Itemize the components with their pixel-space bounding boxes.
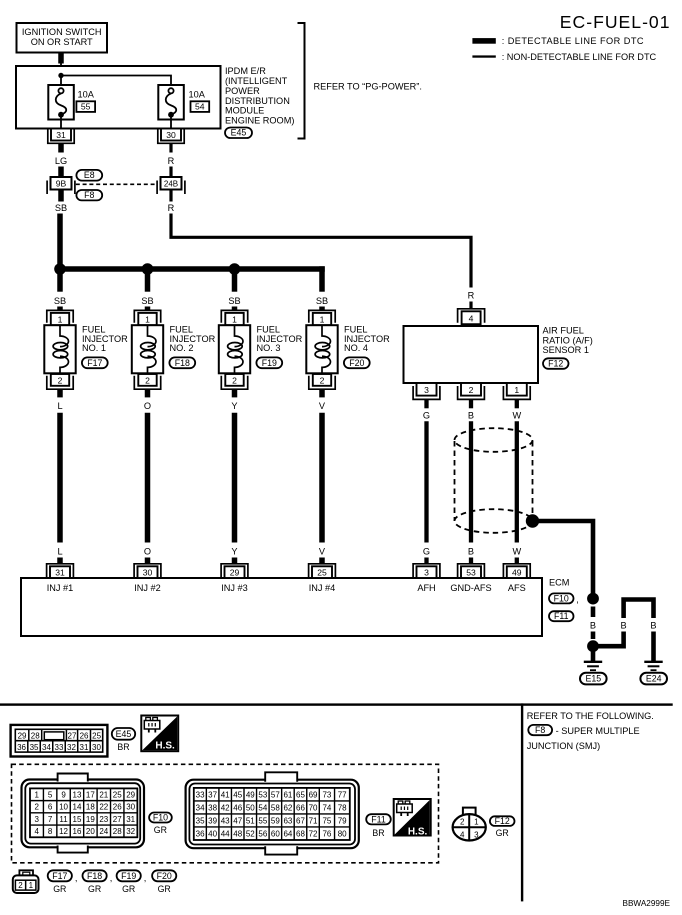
harness side marker H.S. (E45) (141, 716, 178, 752)
svg-text:25: 25 (317, 568, 327, 578)
fuse number box 55 (76, 101, 95, 112)
wire color SB (55, 203, 67, 213)
wire SB stub to injector 1 (57, 307, 63, 311)
svg-text:73: 73 (322, 790, 331, 799)
wire color B (ground run) (590, 621, 596, 631)
wire injector 1 down stub (57, 389, 63, 397)
wire SB stub to injector 3 (232, 307, 238, 311)
svg-text:38: 38 (208, 803, 217, 812)
wire 24B down (thin stub) (169, 190, 172, 202)
connector ref F8 oval (76, 190, 102, 200)
svg-text:V: V (319, 547, 326, 557)
junction dot bus x=234.5 (229, 263, 241, 275)
svg-text:3: 3 (424, 385, 429, 395)
svg-text:(INTELLIGENT: (INTELLIGENT (225, 76, 288, 86)
svg-text:12: 12 (59, 827, 68, 836)
svg-text:77: 77 (338, 790, 347, 799)
svg-text:1: 1 (34, 790, 39, 799)
svg-text:22: 22 (99, 803, 108, 812)
ground symbol E24 (644, 662, 662, 670)
svg-text:H.S.: H.S. (408, 826, 428, 837)
svg-text:3: 3 (424, 568, 429, 578)
svg-text:9: 9 (61, 790, 66, 799)
svg-text:SB: SB (228, 296, 240, 306)
connector ref F19 oval (footer) (117, 870, 141, 894)
svg-text:54: 54 (258, 803, 267, 812)
svg-text:25: 25 (113, 790, 122, 799)
svg-text:80: 80 (338, 829, 347, 838)
injector supply bus (57, 266, 325, 272)
svg-text:25: 25 (92, 731, 101, 740)
svg-text:DISTRIBUTION: DISTRIBUTION (225, 96, 290, 106)
svg-text:4: 4 (469, 313, 474, 323)
svg-text:34: 34 (42, 743, 51, 752)
svg-text:32: 32 (67, 743, 76, 752)
ECM terminal label INJ #1 (47, 583, 74, 593)
svg-text:F11: F11 (371, 814, 386, 824)
svg-text:74: 74 (322, 803, 331, 812)
svg-text:INJ #1: INJ #1 (47, 583, 74, 593)
air fuel ratio sensor 1 body (404, 326, 539, 383)
svg-text:57: 57 (271, 790, 280, 799)
connector ref F17 oval (footer) (48, 870, 72, 894)
svg-text:26: 26 (80, 731, 89, 740)
svg-text:76: 76 (322, 829, 331, 838)
svg-text:INJ #2: INJ #2 (134, 583, 161, 593)
svg-text:W: W (512, 547, 521, 557)
junction dot bus x=147.5 (142, 263, 154, 275)
ground ref E15 oval (580, 673, 607, 685)
shield bottom ellipse (455, 509, 533, 533)
fuel injector no. 4 body (306, 325, 337, 373)
svg-text:2: 2 (145, 375, 150, 385)
svg-text:36: 36 (196, 829, 205, 838)
connector ref F20 oval (344, 357, 370, 368)
wire color L (lower) (57, 547, 62, 557)
svg-text:GR: GR (496, 828, 509, 838)
svg-text:1: 1 (232, 314, 237, 324)
A/F sensor label (543, 326, 593, 356)
svg-text:,: , (110, 873, 113, 883)
svg-text:11: 11 (59, 815, 68, 824)
svg-text:33: 33 (196, 790, 205, 799)
ECM terminal label AFH (417, 583, 435, 593)
dashed group box F10/F11 (12, 764, 439, 863)
svg-text:BBWA2999E: BBWA2999E (623, 899, 671, 908)
connector face F10 (22, 774, 145, 853)
refer bracket (298, 23, 305, 139)
ECM box (21, 578, 542, 636)
svg-text:2: 2 (460, 817, 465, 826)
injector 3 label (257, 325, 303, 353)
ECM terminal 3 (AFH) (413, 564, 440, 578)
svg-text:53: 53 (466, 568, 476, 578)
svg-text:ON OR START: ON OR START (31, 37, 93, 47)
svg-text:F20: F20 (349, 358, 364, 368)
svg-text:GR: GR (122, 884, 135, 894)
svg-text:14: 14 (73, 803, 82, 812)
fuse 10A 55 (48, 85, 74, 120)
svg-text:AFS: AFS (508, 583, 526, 593)
svg-text:26: 26 (113, 803, 122, 812)
wire V to ECM (319, 413, 325, 543)
svg-text:6: 6 (48, 803, 53, 812)
fuel injector no. 1 body (44, 325, 75, 373)
junction smj text (527, 741, 601, 751)
comma separator (75, 873, 78, 883)
wire lower dot to E24 branch (593, 632, 624, 647)
svg-text:GR: GR (53, 884, 66, 894)
svg-text:10: 10 (59, 803, 68, 812)
svg-text:B: B (468, 547, 474, 557)
wire color LG (55, 156, 67, 166)
wire color R (168, 156, 175, 166)
super multiple junction text (556, 726, 640, 736)
wire color B (branch left) (621, 621, 627, 631)
svg-text:IPDM E/R: IPDM E/R (225, 66, 266, 76)
svg-text:32: 32 (126, 827, 135, 836)
ground symbol E15 (584, 662, 602, 670)
svg-text:63: 63 (283, 816, 292, 825)
ground ref E24 oval (640, 673, 667, 685)
legend non-detectable line sample (472, 55, 495, 57)
connector ref F19 oval (256, 357, 282, 368)
wire L to ECM (57, 413, 63, 543)
E45 color BR (117, 742, 129, 752)
connector ref E8 oval (76, 170, 102, 181)
wire color SB (injector 3) (228, 296, 240, 306)
svg-text:13: 13 (73, 790, 82, 799)
svg-text:RATIO (A/F): RATIO (A/F) (543, 335, 593, 345)
wire color SB (injector 2) (141, 296, 153, 306)
shield right side (532, 441, 534, 515)
injector 2 pin 2 (134, 374, 160, 389)
svg-text:1: 1 (58, 314, 63, 324)
svg-text:B: B (590, 621, 596, 631)
wire color O (lower) (144, 547, 151, 557)
svg-text:50: 50 (246, 803, 255, 812)
svg-text:GR: GR (154, 825, 167, 835)
connector ref F8 oval (footer) (528, 725, 552, 735)
injector 4 label (344, 325, 390, 353)
svg-text:3: 3 (34, 815, 39, 824)
shield left side (454, 441, 456, 521)
wire 9B down (thick stub) (58, 190, 64, 202)
wire color R (168, 203, 175, 213)
injector 2 label (170, 325, 216, 353)
svg-text:REFER TO THE FOLLOWING.: REFER TO THE FOLLOWING. (527, 711, 654, 721)
svg-text:F20: F20 (157, 871, 172, 881)
wire injector 2 down stub (145, 389, 151, 397)
connector face F17-F20 (13, 870, 39, 893)
svg-text:53: 53 (258, 790, 267, 799)
connector face F11 (186, 772, 359, 854)
wire color G (423, 411, 430, 421)
fuel injector no. 2 body (132, 325, 163, 373)
wire bus to injector 1 drop (57, 266, 63, 291)
A/F sensor pin 1 (503, 383, 530, 399)
svg-text:35: 35 (196, 816, 205, 825)
figure code BBWA2999E (623, 899, 671, 908)
svg-text:GR: GR (158, 884, 171, 894)
svg-text:F12: F12 (548, 359, 563, 369)
svg-text:30: 30 (143, 568, 153, 578)
wire O to ECM (145, 413, 151, 543)
svg-text:41: 41 (221, 790, 230, 799)
connector ref F12 oval (footer) (490, 816, 515, 826)
ECM terminal 53 (GND-AFS) (458, 564, 485, 578)
junction dot ground run upper (587, 593, 599, 605)
wire injector 4 down stub (319, 389, 325, 397)
svg-text:F17: F17 (87, 358, 102, 368)
svg-text:ECM: ECM (549, 578, 569, 588)
svg-text:55: 55 (81, 102, 91, 112)
ECM terminal 29 (INJ #3) (221, 564, 248, 578)
wire color B (468, 411, 474, 421)
wire into IPDM (thin) (60, 63, 62, 76)
footer separator vertical (521, 703, 523, 901)
wire color R (sensor feed) (468, 291, 475, 301)
svg-text:28: 28 (113, 827, 122, 836)
wire junction to fuse 55 (60, 76, 62, 89)
wire color SB (injector 4) (316, 296, 328, 306)
wire to E24 ground (651, 632, 656, 662)
svg-text:17: 17 (86, 790, 95, 799)
A/F sensor pin 3 (413, 383, 440, 399)
svg-text:34: 34 (196, 803, 205, 812)
svg-text:10A: 10A (189, 90, 206, 100)
terminal 30 (IPDM) (158, 129, 184, 153)
svg-text:F8: F8 (84, 190, 94, 200)
wire SB stub to injector 2 (145, 307, 151, 311)
svg-text:78: 78 (338, 803, 347, 812)
SMJ dashed link 9B-24B (76, 183, 157, 185)
svg-text:B: B (650, 621, 656, 631)
wire W stub into ECM (515, 558, 519, 564)
wire sensor pin 1 stub (515, 399, 519, 408)
svg-text:27: 27 (113, 815, 122, 824)
svg-text:4: 4 (460, 831, 465, 840)
F11 color BR (372, 828, 384, 838)
svg-text:79: 79 (338, 816, 347, 825)
IPDM E/R box (16, 66, 221, 129)
junction dot ground run lower (587, 640, 599, 652)
wire injector 3 down stub (232, 389, 238, 397)
svg-text:Y: Y (231, 547, 237, 557)
svg-text:72: 72 (309, 829, 318, 838)
svg-text:69: 69 (309, 790, 318, 799)
svg-text:24: 24 (99, 827, 108, 836)
svg-text:F18: F18 (175, 358, 190, 368)
svg-text:31: 31 (126, 815, 135, 824)
svg-text:G: G (423, 411, 430, 421)
svg-text:,: , (576, 595, 579, 605)
injector 4 pin 2 (309, 374, 335, 389)
fuse 54 value label 10A (189, 90, 206, 100)
ECM terminal 49 (AFS) (503, 564, 530, 578)
svg-text:JUNCTION (SMJ): JUNCTION (SMJ) (527, 741, 601, 751)
ECM terminal 30 (INJ #2) (134, 564, 161, 578)
legend detectable text (502, 36, 644, 46)
svg-text:NO. 3: NO. 3 (257, 343, 281, 353)
svg-text:SB: SB (141, 296, 153, 306)
svg-text:23: 23 (99, 815, 108, 824)
injector 3 pin 1 (221, 310, 247, 325)
svg-text:70: 70 (309, 803, 318, 812)
svg-text:66: 66 (296, 803, 305, 812)
wire bus to injector 2 drop (145, 266, 151, 291)
svg-text:29: 29 (126, 790, 135, 799)
wire color W (512, 411, 521, 421)
svg-text:21: 21 (99, 790, 108, 799)
svg-text:V: V (319, 401, 326, 411)
svg-text:R: R (468, 291, 475, 301)
svg-text:8: 8 (48, 827, 53, 836)
svg-text:1: 1 (514, 385, 519, 395)
svg-text:F10: F10 (153, 812, 168, 822)
F10 color GR (154, 825, 167, 835)
wire SB stub to injector 4 (319, 307, 325, 311)
svg-text:33: 33 (55, 743, 64, 752)
svg-text:1: 1 (145, 314, 150, 324)
connector ref F17 oval (82, 357, 108, 368)
wire B stub into ECM (469, 558, 473, 564)
fuel injector no. 3 body (219, 325, 250, 373)
svg-text:37: 37 (208, 790, 217, 799)
legend non-detectable text (502, 52, 657, 62)
wire color G (lower) (423, 547, 430, 557)
svg-text:55: 55 (258, 816, 267, 825)
svg-text:43: 43 (221, 816, 230, 825)
wire W to ECM (515, 421, 519, 542)
svg-text:54: 54 (195, 102, 205, 112)
svg-text:MODULE: MODULE (225, 106, 264, 116)
fuse number box 54 (191, 101, 210, 112)
svg-text:,: , (144, 873, 147, 883)
svg-text:59: 59 (271, 816, 280, 825)
wire ignition to IPDM (thick) (58, 53, 64, 64)
ECM terminal label GND-AFS (450, 583, 491, 593)
injector 4 pin 1 (309, 310, 335, 325)
svg-text:36: 36 (17, 743, 26, 752)
svg-text:1: 1 (320, 314, 325, 324)
svg-text:BR: BR (117, 742, 129, 752)
svg-text:51: 51 (246, 816, 255, 825)
wire R to A/F sensor (171, 214, 471, 288)
svg-text:B: B (468, 411, 474, 421)
svg-text:47: 47 (233, 816, 242, 825)
svg-text:BR: BR (372, 828, 384, 838)
svg-text:- SUPER MULTIPLE: - SUPER MULTIPLE (556, 726, 640, 736)
wire sensor pin 2 stub (469, 399, 473, 408)
connector ref E45 oval (footer) (112, 728, 135, 740)
svg-text:IGNITION SWITCH: IGNITION SWITCH (22, 27, 102, 37)
comma separator (110, 873, 113, 883)
junction node inside IPDM (58, 73, 63, 78)
svg-text:INJ #4: INJ #4 (309, 583, 336, 593)
svg-text:,: , (75, 873, 78, 883)
svg-text:E45: E45 (116, 729, 132, 739)
svg-text:27: 27 (68, 731, 77, 740)
svg-text:49: 49 (246, 790, 255, 799)
svg-text:31: 31 (56, 130, 66, 140)
svg-text:16: 16 (73, 827, 82, 836)
svg-text:9B: 9B (56, 179, 67, 189)
shield top ellipse (455, 428, 533, 452)
svg-text:O: O (144, 401, 151, 411)
fuse 54 (158, 85, 184, 120)
svg-text:62: 62 (283, 803, 292, 812)
svg-text:F10: F10 (554, 593, 569, 603)
svg-text:29: 29 (18, 731, 27, 740)
svg-text:NO. 4: NO. 4 (344, 343, 368, 353)
svg-text:56: 56 (258, 829, 267, 838)
ECM terminal label INJ #3 (221, 583, 248, 593)
refer to PG-POWER text (314, 82, 422, 92)
wire SB to bus (57, 214, 63, 270)
svg-text:48: 48 (233, 829, 242, 838)
svg-text:L: L (57, 547, 62, 557)
title EC-FUEL-01 (560, 12, 671, 32)
F12 color GR (496, 828, 509, 838)
svg-text:19: 19 (86, 815, 95, 824)
wire color V (319, 401, 326, 411)
comma between F10 F11 (576, 595, 579, 605)
svg-text:O: O (144, 547, 151, 557)
svg-text:SB: SB (55, 203, 67, 213)
ECM terminal label INJ #2 (134, 583, 161, 593)
svg-text:B: B (621, 621, 627, 631)
harness side marker H.S. (F10/F11) (394, 799, 431, 837)
svg-text:28: 28 (31, 731, 40, 740)
svg-text:24B: 24B (164, 180, 178, 189)
wire color B (branch right) (650, 621, 656, 631)
connector face E45 (11, 725, 108, 757)
svg-text:LG: LG (55, 156, 67, 166)
svg-text:30: 30 (126, 803, 135, 812)
svg-text:NO. 1: NO. 1 (82, 343, 106, 353)
wire to E15 ground (591, 650, 596, 661)
svg-text:L: L (57, 401, 62, 411)
connector ref F12 oval (543, 358, 569, 369)
wire fuse 55 to terminal 31 (60, 115, 62, 129)
IPDM label text (225, 66, 294, 125)
legend detectable line sample (472, 38, 495, 44)
wire L stub into ECM (57, 558, 63, 564)
svg-text:60: 60 (271, 829, 280, 838)
wire branch top run (624, 600, 654, 619)
wire LG to 9B (thick stub) (58, 167, 64, 178)
svg-text:2: 2 (34, 803, 39, 812)
connector ref F18 oval (169, 357, 195, 368)
injector 1 label (82, 325, 128, 353)
svg-text:NO. 2: NO. 2 (170, 343, 194, 353)
connector face F12 (453, 808, 486, 841)
svg-text:2: 2 (58, 375, 63, 385)
wire bus to injector 4 drop (319, 266, 325, 291)
svg-text:E15: E15 (585, 674, 601, 684)
comma separator (144, 873, 147, 883)
svg-text:F11: F11 (554, 611, 569, 621)
ECM label (549, 578, 569, 588)
wire color L (57, 401, 62, 411)
svg-text:46: 46 (233, 803, 242, 812)
svg-text:75: 75 (322, 816, 331, 825)
svg-text:E24: E24 (646, 674, 662, 684)
svg-text:61: 61 (283, 790, 292, 799)
svg-text:1: 1 (29, 881, 34, 890)
svg-text:GR: GR (88, 884, 101, 894)
